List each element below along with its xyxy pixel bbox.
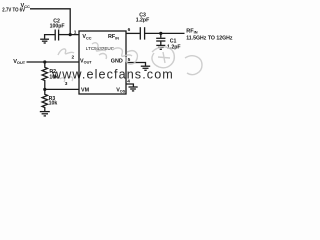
wire C2 to ground xyxy=(45,35,55,39)
ground (R3) xyxy=(40,112,50,116)
node R2/R3/VM junction xyxy=(43,88,46,91)
watermark swirls (decorative grey) xyxy=(58,43,202,82)
wire VOS pin 4 xyxy=(126,84,133,87)
svg-text:2.7V TO 6V: 2.7V TO 6V xyxy=(2,7,25,13)
svg-text:10k: 10k xyxy=(49,101,58,107)
svg-text:100pF: 100pF xyxy=(50,24,65,30)
wire VOUT net xyxy=(27,61,80,63)
node VCC/C2 junction xyxy=(69,33,72,36)
svg-text:11.5GHz TO 12GHz: 11.5GHz TO 12GHz xyxy=(186,35,233,41)
label C3 value xyxy=(136,13,150,24)
capacitor C2 xyxy=(55,30,58,41)
svg-text:1.2pF: 1.2pF xyxy=(136,18,150,24)
svg-text:VOUT: VOUT xyxy=(13,59,26,65)
svg-text:2: 2 xyxy=(72,55,75,61)
label C1 value xyxy=(167,38,181,50)
wire RFIN pin 6 to C3 xyxy=(126,32,140,34)
wire C3 to RFIN port xyxy=(145,32,185,34)
label VCC supply xyxy=(2,3,30,14)
label C2 value xyxy=(50,18,65,29)
resistor R3 xyxy=(42,89,47,111)
node C3/C1 junction xyxy=(159,32,162,35)
label RFIN port xyxy=(186,28,233,41)
ground (pin 4) xyxy=(129,87,138,91)
svg-text:GND: GND xyxy=(111,59,123,65)
capacitor C1 xyxy=(156,33,165,45)
svg-text:5: 5 xyxy=(128,57,131,63)
svg-text:6: 6 xyxy=(128,27,131,33)
wire VCC rail xyxy=(30,9,79,35)
wire C2 branch xyxy=(59,34,70,36)
resistor R2 xyxy=(42,62,47,89)
wire GND pin 5 xyxy=(126,63,146,66)
svg-text:RFIN: RFIN xyxy=(186,28,198,34)
op-amp U1 LTC5532 body xyxy=(79,31,126,94)
ground (pin 5) xyxy=(141,66,150,70)
ground (C2) xyxy=(40,39,49,43)
capacitor C3 xyxy=(140,27,144,39)
svg-text:3: 3 xyxy=(65,81,68,87)
ground (C1) xyxy=(156,45,165,49)
svg-text:1: 1 xyxy=(74,29,77,35)
label R2 value xyxy=(49,69,58,80)
svg-text:www.elecfans.com: www.elecfans.com xyxy=(51,68,174,82)
svg-text:VM: VM xyxy=(81,87,90,93)
label R3 value xyxy=(49,96,58,107)
wire VM tap to pin 3 xyxy=(45,88,79,90)
node VOUT/R2 junction xyxy=(43,60,46,63)
